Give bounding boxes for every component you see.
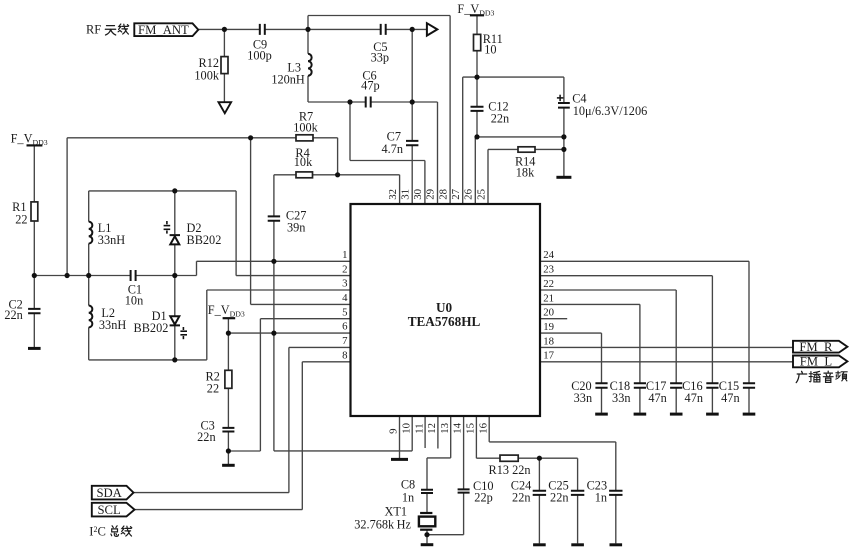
svg-text:22p: 22p [474, 491, 492, 505]
svg-text:100k: 100k [293, 121, 318, 135]
svg-text:27: 27 [450, 188, 462, 199]
svg-text:10: 10 [484, 42, 496, 56]
svg-text:47p: 47p [361, 79, 379, 93]
svg-text:I2C: I2C [89, 525, 106, 539]
svg-text:31: 31 [399, 189, 411, 200]
svg-text:100p: 100p [247, 49, 272, 63]
svg-text:BB202: BB202 [187, 233, 222, 247]
svg-text:47n: 47n [648, 391, 666, 405]
svg-text:24: 24 [543, 249, 554, 261]
svg-text:C8: C8 [401, 477, 415, 491]
svg-text:4: 4 [342, 292, 348, 304]
svg-text:47n: 47n [685, 391, 703, 405]
svg-text:BB202: BB202 [134, 321, 169, 335]
svg-text:R13 22n: R13 22n [489, 463, 531, 477]
svg-text:3: 3 [342, 278, 347, 290]
svg-text:1n: 1n [595, 491, 607, 505]
svg-text:26: 26 [463, 188, 475, 199]
svg-text:18k: 18k [516, 165, 535, 179]
svg-text:FM_R: FM_R [799, 340, 833, 354]
svg-text:7: 7 [342, 335, 348, 347]
svg-text:1n: 1n [402, 490, 414, 504]
svg-text:30: 30 [412, 189, 424, 200]
svg-text:32.768k Hz: 32.768k Hz [354, 517, 411, 531]
svg-text:6: 6 [342, 321, 348, 333]
svg-text:47n: 47n [721, 391, 739, 405]
svg-text:25: 25 [475, 189, 487, 200]
svg-text:4.7n: 4.7n [381, 142, 403, 156]
svg-text:14: 14 [452, 422, 464, 433]
svg-text:23: 23 [543, 264, 554, 276]
svg-text:8: 8 [342, 349, 347, 361]
svg-text:SCL: SCL [98, 503, 121, 517]
svg-text:28: 28 [437, 189, 449, 200]
svg-text:22n: 22n [491, 111, 509, 125]
svg-text:SDA: SDA [96, 486, 122, 500]
svg-text:22n: 22n [550, 491, 568, 505]
svg-text:120nH: 120nH [271, 73, 305, 87]
svg-text:100k: 100k [194, 68, 219, 82]
svg-text:FM_L: FM_L [800, 355, 832, 369]
svg-text:XT1: XT1 [384, 505, 407, 519]
svg-text:10n: 10n [125, 294, 143, 308]
svg-text:33nH: 33nH [99, 318, 126, 332]
svg-text:FM_ANT: FM_ANT [138, 23, 189, 37]
svg-text:18: 18 [543, 335, 554, 347]
svg-text:12: 12 [426, 423, 438, 434]
svg-text:33p: 33p [371, 51, 389, 65]
svg-text:11: 11 [413, 423, 425, 433]
svg-text:33n: 33n [612, 391, 630, 405]
svg-text:22n: 22n [4, 308, 22, 322]
svg-text:22n: 22n [512, 491, 530, 505]
svg-text:15: 15 [465, 423, 477, 434]
svg-text:22: 22 [207, 382, 219, 396]
svg-text:TEA5768HL: TEA5768HL [408, 314, 481, 329]
svg-text:19: 19 [543, 321, 554, 333]
svg-text:5: 5 [342, 306, 347, 318]
svg-text:22: 22 [15, 212, 27, 226]
svg-text:1: 1 [342, 249, 347, 261]
svg-text:39n: 39n [287, 220, 305, 234]
svg-text:2: 2 [342, 263, 347, 275]
svg-text:33nH: 33nH [98, 233, 125, 247]
svg-text:10μ/6.3V/1206: 10μ/6.3V/1206 [573, 104, 648, 118]
svg-text:10k: 10k [294, 155, 313, 169]
svg-text:U0: U0 [436, 300, 453, 315]
svg-text:22n: 22n [197, 430, 215, 444]
svg-text:22: 22 [543, 278, 554, 290]
svg-text:20: 20 [543, 307, 554, 319]
svg-text:9: 9 [388, 428, 400, 433]
svg-text:33n: 33n [574, 391, 592, 405]
svg-text:32: 32 [387, 189, 399, 200]
svg-text:16: 16 [477, 422, 489, 433]
svg-text:13: 13 [439, 423, 451, 434]
svg-text:10: 10 [401, 423, 413, 434]
svg-text:21: 21 [543, 292, 554, 304]
svg-text:17: 17 [543, 350, 554, 362]
svg-text:29: 29 [425, 189, 437, 200]
svg-text:RF: RF [86, 23, 101, 37]
